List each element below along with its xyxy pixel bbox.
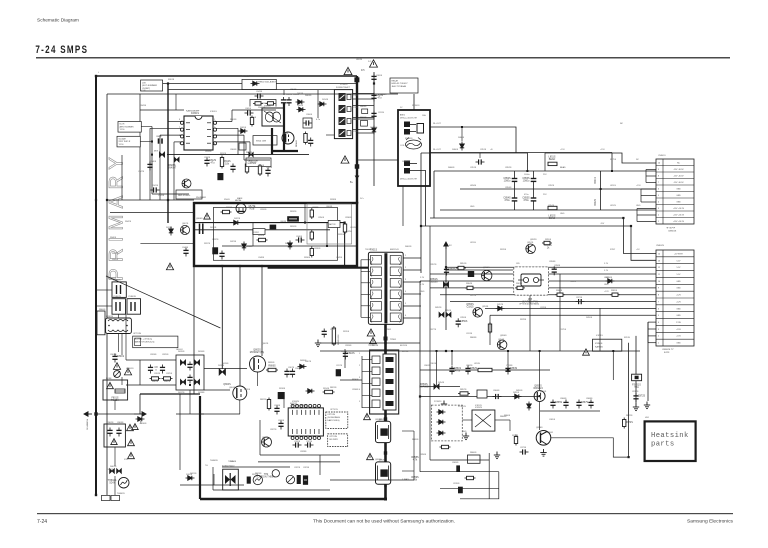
warning triangle W9 xyxy=(124,368,131,375)
svg-text:D809S: D809S xyxy=(186,474,193,476)
svg-text:C854S: C854S xyxy=(548,205,555,207)
wire thick primary feed xyxy=(356,76,358,203)
node xyxy=(384,485,386,487)
node xyxy=(451,350,453,352)
svg-text:NTC: NTC xyxy=(124,459,129,461)
node xyxy=(445,350,447,352)
diode in opto 3 xyxy=(437,431,446,435)
wire startup feed xyxy=(110,212,194,214)
svg-text:R842S: R842S xyxy=(125,221,132,223)
wire secondary stub 2 xyxy=(403,269,421,271)
drive transformer core xyxy=(383,354,396,410)
svg-text:D803S: D803S xyxy=(297,93,304,95)
capacitor C802S xyxy=(107,428,112,437)
capacitor C817S dark xyxy=(336,369,341,376)
svg-text:R864S: R864S xyxy=(466,283,473,285)
svg-text:C847S: C847S xyxy=(138,171,145,173)
capacitor C816S xyxy=(343,351,348,360)
resistor R833S xyxy=(221,210,232,213)
svg-text:C852S: C852S xyxy=(505,167,512,169)
diode xyxy=(372,126,376,135)
wire xyxy=(295,399,297,403)
svg-text:C801S: C801S xyxy=(110,354,117,356)
svg-text:+15V +16.5V: +15V +16.5V xyxy=(673,208,685,210)
wire xyxy=(215,134,244,136)
wire to CN801S pin1 xyxy=(545,153,656,163)
wire drive return xyxy=(330,479,414,481)
capacitor C805S xyxy=(245,110,254,115)
wire xyxy=(176,413,204,415)
wire gate feed Q804S xyxy=(239,266,241,386)
node xyxy=(419,395,421,397)
svg-text:+12V: +12V xyxy=(604,291,609,293)
transistor Q806S in snubber xyxy=(236,204,246,214)
svg-text:This Document can not be used: This Document can not be used without Sa… xyxy=(313,519,455,525)
wire xyxy=(139,94,141,200)
svg-text:D813S: D813S xyxy=(166,227,173,229)
node xyxy=(539,350,541,352)
wire feedback 3 xyxy=(440,487,499,489)
capacitor C868S xyxy=(588,400,593,409)
transformer T802S windings xyxy=(264,111,281,123)
svg-text:D817S: D817S xyxy=(178,392,185,394)
wire xyxy=(479,153,481,158)
wire xyxy=(175,94,177,110)
svg-text:SNUBBER: SNUBBER xyxy=(196,197,207,199)
wire xyxy=(479,166,481,171)
svg-text:Schematic Diagram: Schematic Diagram xyxy=(37,18,79,24)
diode D827S dark xyxy=(159,152,164,157)
svg-text:5.1V: 5.1V xyxy=(420,277,425,279)
note box surge xyxy=(253,136,277,145)
wire xyxy=(139,360,141,385)
transistor Q809S xyxy=(272,470,279,477)
wire xyxy=(540,465,613,467)
note box relay xyxy=(390,78,418,93)
svg-text:1N4007: 1N4007 xyxy=(168,166,177,169)
svg-text:"E" B.P/F: "E" B.P/F xyxy=(666,228,676,230)
title rule xyxy=(36,57,730,59)
svg-text:20V: 20V xyxy=(142,82,146,84)
svg-text:R815S: R815S xyxy=(343,331,350,333)
svg-text:BEAD: BEAD xyxy=(549,217,556,220)
wire xyxy=(140,109,184,111)
note box S-100AT xyxy=(117,136,140,147)
CX803S plates xyxy=(131,302,135,311)
wire xyxy=(139,394,141,414)
wire xyxy=(96,305,112,307)
svg-text:C802S: C802S xyxy=(107,422,114,424)
wire fuse to rail xyxy=(276,83,357,85)
transformer T801S right winding pin 2 xyxy=(390,267,401,276)
svg-text:Q807S: Q807S xyxy=(182,223,189,225)
wire opto link xyxy=(353,105,374,107)
transformer T801S left winding pin 5 xyxy=(370,302,381,311)
svg-text:7: 7 xyxy=(658,182,659,184)
svg-text:Q801S: Q801S xyxy=(282,133,289,135)
svg-text:DRIVE: DRIVE xyxy=(402,351,409,353)
svg-text:FUSE: FUSE xyxy=(106,378,112,380)
wire xyxy=(451,351,453,365)
resistor R815S xyxy=(332,326,335,346)
wire xyxy=(461,151,463,153)
svg-text:C803S: C803S xyxy=(117,422,124,424)
wire secondary stub 6 xyxy=(403,317,421,319)
wire xyxy=(231,110,233,122)
svg-text:PC802S: PC802S xyxy=(434,401,442,403)
wire xyxy=(353,118,374,120)
svg-text:8: 8 xyxy=(658,175,659,177)
svg-text:D860S: D860S xyxy=(448,167,455,169)
wire thick bottom return xyxy=(200,498,387,501)
warning triangle W18 xyxy=(204,213,210,219)
wire rail 15V xyxy=(420,396,540,398)
capacitor C869S dark xyxy=(456,465,460,471)
transistor Q853S MOSFET module on return 2 xyxy=(376,460,391,485)
diode D852S xyxy=(439,312,444,317)
wire xyxy=(429,218,431,226)
wire xyxy=(436,351,438,387)
svg-text:C857S: C857S xyxy=(448,268,456,271)
bead inductor L851S xyxy=(548,162,557,165)
X-capacitor CX801S xyxy=(112,282,126,298)
wire rail D to CN802S xyxy=(623,218,656,253)
svg-text:C867S: C867S xyxy=(581,401,589,404)
svg-text:Q806S: Q806S xyxy=(196,218,203,220)
resistor R805S xyxy=(250,116,253,127)
node xyxy=(326,245,328,247)
svg-text:R836S: R836S xyxy=(304,257,311,259)
svg-text:-15V -16.5V: -15V -16.5V xyxy=(673,175,684,177)
drive block pin 4 xyxy=(372,389,380,397)
wire rail filt xyxy=(420,369,550,371)
svg-text:Q852S: Q852S xyxy=(527,242,534,244)
diode D860S xyxy=(460,142,464,151)
wire xyxy=(420,444,431,446)
node xyxy=(612,350,614,352)
svg-text:GBU4J: GBU4J xyxy=(176,349,182,351)
ground xyxy=(441,401,447,408)
svg-text:R877S: R877S xyxy=(430,329,437,331)
svg-text:D807S: D807S xyxy=(305,361,312,363)
wire xyxy=(356,132,374,134)
svg-text:5: 5 xyxy=(658,195,659,197)
photocoupler element 1 xyxy=(339,93,346,101)
wire xyxy=(429,350,431,352)
node xyxy=(106,199,108,201)
svg-text:C827S: C827S xyxy=(270,429,277,431)
svg-text:D815S: D815S xyxy=(178,351,185,353)
wire xyxy=(200,413,240,415)
wire snubber to bridge xyxy=(221,266,223,369)
node xyxy=(384,350,386,352)
svg-text:C801S: C801S xyxy=(117,355,125,358)
wire xyxy=(121,155,123,200)
transistor xyxy=(180,225,189,234)
wire xyxy=(420,386,460,388)
svg-text:OPTION: OPTION xyxy=(133,333,141,335)
svg-text:C874S: C874S xyxy=(466,333,473,335)
wire gate drop xyxy=(413,431,415,480)
node xyxy=(304,222,306,224)
resistor R864S xyxy=(465,286,475,289)
svg-text:C836S: C836S xyxy=(352,389,359,391)
connector CN802S xyxy=(656,250,694,346)
wire feedback vert 1 xyxy=(488,453,490,499)
warning triangle W16 xyxy=(583,349,590,355)
wire T801S left stub 3 xyxy=(361,282,370,284)
svg-text:1: 1 xyxy=(658,221,659,223)
wire output rail D xyxy=(430,217,623,219)
diode D813S xyxy=(169,227,173,236)
thermal fuse box F801S xyxy=(242,79,276,89)
wire xyxy=(126,359,176,361)
svg-text:R843S: R843S xyxy=(140,105,147,107)
wire secondary rail minor xyxy=(320,342,420,344)
transformer T801S right winding pin 1 xyxy=(390,256,401,265)
wire xyxy=(329,455,331,480)
wire T801S left stub 1 xyxy=(361,259,370,261)
wire bracket rows 5-7 xyxy=(641,189,656,202)
svg-text:GND: GND xyxy=(636,205,641,207)
wire xyxy=(244,159,270,161)
node xyxy=(344,222,346,224)
wire xyxy=(237,128,239,155)
warning triangle W11 xyxy=(111,439,117,445)
wire xyxy=(215,127,238,129)
svg-text:C840S: C840S xyxy=(150,161,157,163)
svg-text:D814S: D814S xyxy=(322,99,329,101)
wire xyxy=(118,297,120,298)
svg-text:4700: 4700 xyxy=(348,231,352,233)
wire gate feed Q802S xyxy=(261,266,263,356)
svg-text:R832S: R832S xyxy=(290,211,297,213)
svg-text:C848S: C848S xyxy=(156,136,162,138)
svg-text:3: 3 xyxy=(658,208,659,210)
svg-text:9: 9 xyxy=(658,169,659,171)
capacitor C821S xyxy=(305,442,314,447)
svg-text:C821S: C821S xyxy=(306,441,313,443)
svg-text:GND: GND xyxy=(676,308,681,310)
inductor winding 3 xyxy=(310,247,313,258)
svg-text:R868S: R868S xyxy=(556,290,563,292)
svg-text:GND: GND xyxy=(560,213,565,215)
svg-text:C812S: C812S xyxy=(205,151,212,153)
svg-text:D860S: D860S xyxy=(458,137,465,139)
warning triangle W15 xyxy=(132,424,138,430)
svg-text:8: 8 xyxy=(658,295,659,297)
svg-text:D810S: D810S xyxy=(140,423,147,425)
svg-text:C849S: C849S xyxy=(336,257,343,259)
svg-text:Q858S: Q858S xyxy=(375,419,382,421)
warning triangle W14 xyxy=(128,452,135,458)
resistor R803S xyxy=(253,102,263,105)
node xyxy=(539,395,541,397)
arrow AC input left xyxy=(84,412,92,416)
svg-text:C869S: C869S xyxy=(452,462,459,464)
svg-text:47u: 47u xyxy=(378,96,383,99)
ground xyxy=(315,340,321,347)
svg-text:Q855S: Q855S xyxy=(540,391,547,393)
svg-text:R840S: R840S xyxy=(110,237,117,239)
resistor xyxy=(542,241,552,244)
capacitor C857S xyxy=(444,267,449,276)
transistor xyxy=(526,244,536,254)
wire xyxy=(180,484,244,486)
svg-text:KA3S0680RF: KA3S0680RF xyxy=(186,110,200,113)
node junction on thick feed xyxy=(354,77,359,82)
svg-text:N-OR: N-OR xyxy=(120,124,125,126)
svg-text:R870S: R870S xyxy=(512,435,519,437)
capacitor C801S xyxy=(112,354,117,363)
wire xyxy=(247,368,250,370)
svg-text:AC IN: AC IN xyxy=(140,89,146,92)
svg-text:R834S: R834S xyxy=(258,235,265,237)
wire bottom bus 3 xyxy=(213,489,330,491)
svg-text:OPTION: OPTION xyxy=(330,409,338,411)
svg-text:14: 14 xyxy=(658,253,660,255)
svg-text:R865S: R865S xyxy=(412,439,419,441)
wire xyxy=(118,334,120,353)
wire xyxy=(309,476,320,478)
svg-text:JH02 TSYB6A4: JH02 TSYB6A4 xyxy=(392,85,407,88)
photocoupler column PC801S xyxy=(334,90,352,139)
bridge diode 2 xyxy=(180,379,185,384)
svg-text:parts: parts xyxy=(651,441,675,449)
resistor R856S xyxy=(488,322,491,334)
svg-text:R810S: R810S xyxy=(258,165,265,167)
svg-text:Q808S: Q808S xyxy=(280,221,287,223)
wire drive stub 4 xyxy=(362,407,372,409)
wire xyxy=(559,274,561,351)
svg-text:L855S: L855S xyxy=(470,242,476,244)
photocoupler element 4 xyxy=(339,129,346,137)
wire drive stub 1 xyxy=(362,371,372,373)
wire snubber internal 2 xyxy=(194,229,330,231)
note box RB2 xyxy=(176,190,202,199)
capacitor C862S xyxy=(465,366,470,375)
svg-text:+15V: +15V xyxy=(560,149,565,151)
svg-text:T2A: T2A xyxy=(634,386,639,389)
diode D858S xyxy=(606,279,615,283)
svg-text:SC08M-TR04CT: SC08M-TR04CT xyxy=(336,87,351,89)
component value labels 2 xyxy=(98,72,666,476)
wire bracket rows 2-4 xyxy=(646,170,656,183)
svg-text:CN801S: CN801S xyxy=(668,231,677,233)
resistor R806S xyxy=(266,368,278,371)
diode D857S xyxy=(496,306,505,310)
bridge rectifier D803S xyxy=(176,355,204,390)
wire xyxy=(344,223,346,268)
diode xyxy=(527,402,531,411)
svg-text:C870S: C870S xyxy=(453,483,460,485)
shunt regulator IC852S xyxy=(472,410,495,431)
svg-text:D822S: D822S xyxy=(234,218,241,220)
svg-text:1: 1 xyxy=(658,343,659,345)
resistor R807S xyxy=(304,132,307,145)
svg-text:T801S: T801S xyxy=(370,249,377,252)
node xyxy=(507,369,509,371)
svg-text:2: 2 xyxy=(658,214,659,216)
svg-text:C818S: C818S xyxy=(274,405,281,407)
transistor Q852S MOSFET module on return xyxy=(376,419,391,443)
svg-text:C866S: C866S xyxy=(560,398,567,400)
note box factor xyxy=(328,220,340,227)
svg-text:OPTION: OPTION xyxy=(329,436,337,438)
svg-text:D801S: D801S xyxy=(110,466,117,468)
arrow live out right xyxy=(134,412,146,416)
node xyxy=(526,170,528,172)
svg-text:C811S: C811S xyxy=(378,112,385,114)
wire feedback 2 xyxy=(420,471,499,473)
wire CN802S feed 7 xyxy=(440,294,656,296)
wire xyxy=(107,344,133,346)
wire xyxy=(330,400,362,455)
svg-text:IRF9Z24: IRF9Z24 xyxy=(533,387,543,390)
resistor R869S xyxy=(610,293,620,296)
svg-text:C875S: C875S xyxy=(560,329,567,331)
photo coupler box PC802S xyxy=(431,405,462,441)
resistor R812S xyxy=(220,156,223,169)
svg-text:CN802S: CN802S xyxy=(656,245,664,247)
svg-text:(DONGYANG/: (DONGYANG/ xyxy=(327,416,340,419)
svg-text:C805S: C805S xyxy=(245,108,252,110)
wire to heatsink rail xyxy=(551,438,629,457)
dark component box D811S xyxy=(287,216,299,221)
component value labels 3 xyxy=(112,105,641,335)
svg-text:C861S: C861S xyxy=(430,363,437,365)
svg-text:C850S: C850S xyxy=(318,217,325,219)
wire CN802S feed 8 xyxy=(450,301,656,303)
svg-text:ZD801S: ZD801S xyxy=(370,127,378,129)
svg-text:C859S: C859S xyxy=(460,317,467,319)
wire fuse line xyxy=(163,83,242,85)
diode in opto 2 xyxy=(437,420,446,424)
svg-text:Q859S: Q859S xyxy=(375,459,382,461)
svg-text:4.7k: 4.7k xyxy=(413,458,418,461)
svg-text:C865S: C865S xyxy=(555,401,563,404)
svg-text:D854S: D854S xyxy=(438,382,445,384)
wire xyxy=(114,476,116,495)
bead inductor L853S xyxy=(478,368,492,371)
node xyxy=(600,188,602,190)
svg-text:R822S: R822S xyxy=(260,399,267,401)
svg-text:R841S: R841S xyxy=(112,253,119,255)
wire mid horizontal bus xyxy=(167,154,309,156)
wire snubber internal xyxy=(194,222,345,224)
capacitor C808S xyxy=(290,369,295,378)
capacitor C809S xyxy=(371,74,376,83)
wire box A internal 3 xyxy=(222,245,356,247)
regulator label box IC851S xyxy=(593,339,622,351)
wire relay feed xyxy=(413,94,415,110)
svg-text:C820S: C820S xyxy=(294,441,301,443)
wire xyxy=(121,334,123,356)
svg-text:Samsung Electronics: Samsung Electronics xyxy=(687,519,733,525)
svg-text:R876S: R876S xyxy=(500,249,507,251)
svg-text:R820S: R820S xyxy=(268,362,275,364)
node xyxy=(611,170,613,172)
wire xyxy=(249,142,251,155)
wire xyxy=(340,379,362,381)
resistor dark box R851S xyxy=(468,271,474,277)
diode D853S xyxy=(446,312,451,317)
wire xyxy=(461,127,463,141)
svg-text:1000u: 1000u xyxy=(524,174,530,176)
transistor Q804S MOSFET xyxy=(233,386,247,400)
JN5 connector module xyxy=(514,267,549,295)
note box option 1 xyxy=(326,412,348,428)
